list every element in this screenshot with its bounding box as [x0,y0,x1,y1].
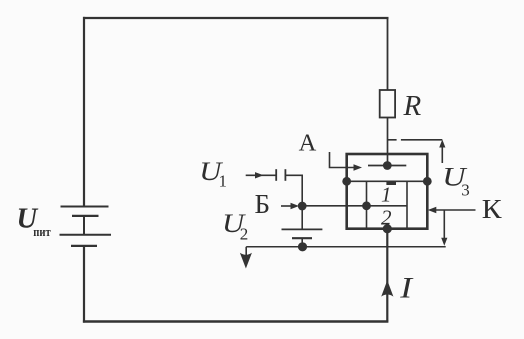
wire U1 arrow line to capacitor [246,174,276,176]
anode bar [368,165,406,167]
battery U_pit cell 1 short plate [72,215,99,217]
wire resistor to anode [387,118,389,166]
anode lead arrow (electrode A pointer) [330,152,356,168]
U2 arrow shaft [245,247,247,256]
B label arrow shaft [281,205,293,207]
arrowhead U2 down (large) [240,253,252,269]
junction dot bottom line [298,242,307,251]
junction dot envelope left [342,177,351,186]
label K (cathode) [482,195,503,224]
wire capacitor to corner [285,174,302,176]
junction dot grid divider [362,201,371,210]
label U1 [199,158,224,186]
svg-text:К: К [482,195,503,224]
junction dot envelope right [423,177,432,186]
label U3 [442,163,467,191]
tube envelope box [347,154,428,229]
wire node B to bias battery [301,206,303,229]
arrowhead K (points left at envelope) [428,207,437,213]
arrowhead U3 down [441,238,447,246]
junction dot node B [298,202,307,211]
svg-text:3: 3 [461,181,470,200]
inner structure right vertical [406,181,408,227]
svg-text:1: 1 [381,183,392,207]
arrowhead U1 [255,172,264,178]
label U_pit [17,204,39,235]
capacitor left plate [275,169,277,181]
svg-text:пит: пит [33,224,51,239]
grid-1 terminal bar [386,181,396,185]
dashed anode reference line [388,139,442,141]
arrowhead A lead [354,164,363,170]
battery U_pit cell 1 long plate [61,206,109,208]
resistor R body [380,90,395,118]
wire left upper (top to battery) [83,17,85,207]
junction dot cathode [383,224,392,233]
grid-1 support line [347,180,428,182]
wire cathode lead [386,229,388,322]
svg-text:1: 1 [219,171,228,190]
wire bias battery to bottom measure line [301,238,303,247]
label U2 [222,210,247,238]
wire corner down to node B [301,175,303,207]
bottom measure line (cathode reference) [246,246,446,248]
bias battery short plate [292,237,312,239]
battery U_pit cell 2 long plate [60,234,112,236]
label current I [399,272,414,305]
wire left lower (battery to bottom) [83,246,85,323]
capacitor right plate [284,169,286,181]
grid divider line (node B to inner right) [302,205,407,207]
battery U_pit cell 2 short plate [71,245,97,247]
svg-text:А: А [299,130,317,157]
wire battery inter-cell link [83,216,85,235]
arrowhead current I up (large) [381,280,393,296]
wire bottom return [83,320,389,322]
svg-text:R: R [403,90,422,122]
U3 up arrow shaft [441,146,443,163]
U3 down arrow shaft [443,210,445,239]
svg-text:Б: Б [255,189,271,219]
svg-text:2: 2 [240,225,249,244]
svg-text:I: I [399,272,414,305]
svg-text:2: 2 [381,206,392,230]
wire right upper (top to resistor) [387,18,389,90]
wire K lead [435,209,476,211]
bias battery long plate [282,228,323,230]
junction dot anode [383,161,392,170]
arrowhead U3 up [439,140,445,148]
arrowhead B [291,203,300,209]
inner structure left vertical [366,181,368,227]
wire top (battery + to resistor) [83,17,389,19]
